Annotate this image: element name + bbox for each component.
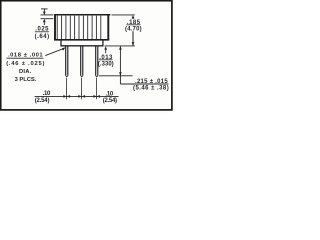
body ribs (serrations) <box>57 16 101 40</box>
svg-text:(.64): (.64) <box>35 34 50 40</box>
svg-text:.215 ± .015: .215 ± .015 <box>135 79 168 85</box>
svg-text:(2.54): (2.54) <box>103 98 117 104</box>
component body outline <box>54 14 110 40</box>
dimension .013/(.330) <box>104 46 107 53</box>
bottom dimension line with arrowheads <box>35 95 119 98</box>
svg-text:(.330): (.330) <box>98 61 114 67</box>
border frame <box>1 1 172 110</box>
pin 1 <box>66 46 69 77</box>
base / standoff <box>61 40 103 46</box>
leader to pin 1 (lead dia callout) <box>45 47 65 55</box>
seating plane extension line <box>105 45 135 47</box>
dimension .215±.015/(5.46±.38) <box>119 46 169 84</box>
dimension .10/(2.54) left <box>35 91 51 104</box>
lead tip extension line <box>99 75 133 77</box>
svg-text:(.46 ± .025): (.46 ± .025) <box>6 61 44 67</box>
svg-text:.10: .10 <box>43 91 51 97</box>
dimension .025/(.64) top-left <box>41 9 54 25</box>
pin 3 <box>96 46 99 77</box>
svg-text:(4.70): (4.70) <box>125 26 142 32</box>
svg-text:3 PLCS.: 3 PLCS. <box>15 77 37 83</box>
svg-text:(2.54): (2.54) <box>35 98 50 104</box>
svg-text:DIA.: DIA. <box>19 69 32 75</box>
dimension .185/(4.70) right <box>112 15 135 46</box>
pin 2 <box>81 46 84 77</box>
svg-text:(5.46 ± .38): (5.46 ± .38) <box>133 85 169 91</box>
lead diameter text block <box>6 53 44 83</box>
lead extension lines below tips <box>67 78 97 99</box>
dimension .10/(2.54) right <box>103 92 117 104</box>
svg-text:.10: .10 <box>106 92 114 98</box>
